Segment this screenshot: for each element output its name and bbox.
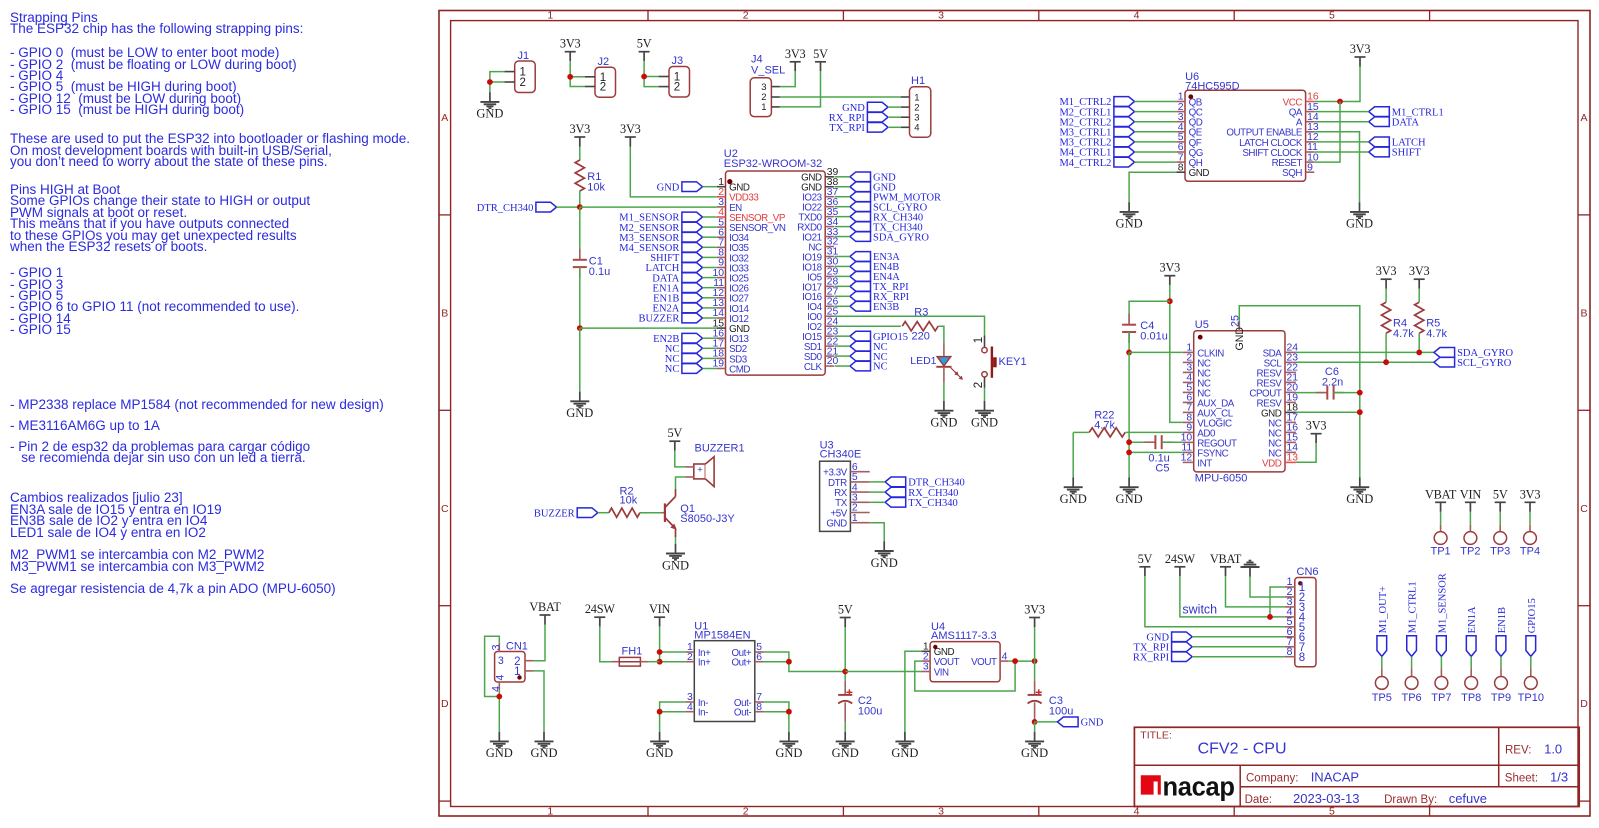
- svg-text:GND: GND: [486, 746, 513, 760]
- U2 pin 38 GND: [801, 177, 838, 194]
- wire R22 to ground: [1072, 432, 1074, 477]
- test point TP3: [1490, 512, 1510, 558]
- svg-text:24SW: 24SW: [1165, 552, 1196, 566]
- svg-text:C: C: [441, 503, 449, 515]
- U2 pin 11 IO26: [713, 278, 749, 295]
- U3 pin 3 TX: [835, 493, 870, 510]
- svg-text:4: 4: [1002, 651, 1008, 662]
- svg-text:TP7: TP7: [1431, 692, 1451, 704]
- wire OUTPUT ENABLE to GND: [1314, 132, 1359, 202]
- junction R5/SDA: [1416, 350, 1422, 356]
- U2 pin 36 IO22: [802, 197, 838, 214]
- wires U6 right labels: [1314, 111, 1368, 113]
- note strapping pins heading: [10, 12, 303, 35]
- junction VIN 2: [657, 659, 663, 665]
- junction VIN 1: [657, 649, 663, 655]
- U2 pin 9 IO33: [717, 258, 750, 275]
- wire 3V3 down to VLOGIC: [1170, 285, 1183, 422]
- svg-text:8: 8: [756, 702, 762, 713]
- U2 pin 24 IO2: [807, 316, 838, 333]
- power 3V3 (J4): [785, 47, 806, 72]
- wire: [1135, 141, 1177, 143]
- svg-text:Date:: Date:: [1245, 794, 1273, 806]
- svg-text:TP5: TP5: [1372, 692, 1392, 704]
- svg-text:GND: GND: [832, 746, 859, 760]
- wire: [835, 305, 850, 307]
- sheet frame: [439, 11, 1590, 817]
- wire: [835, 365, 850, 367]
- svg-text:GND: GND: [891, 746, 918, 760]
- label LATCH (U2 pin 9): [646, 263, 703, 275]
- svg-text:1: 1: [761, 102, 766, 113]
- U2 pin 33 IO21: [802, 227, 838, 244]
- svg-text:B: B: [1580, 307, 1587, 319]
- wire: [703, 267, 717, 269]
- wire U4 VOUT4: [1009, 660, 1035, 662]
- junction In-: [657, 709, 663, 715]
- wire U6.8 GND: [1129, 172, 1176, 202]
- U2 pin 12 IO27: [712, 288, 748, 305]
- title block: [1134, 727, 1579, 806]
- svg-text:2: 2: [743, 805, 749, 817]
- label GND (C3): [1058, 717, 1104, 729]
- svg-text:GND: GND: [1346, 492, 1373, 506]
- U6 pin 11 SHIFT CLOCK: [1242, 142, 1318, 159]
- svg-text:INACAP: INACAP: [1311, 769, 1359, 784]
- capacitor C3 100u: [1028, 681, 1074, 722]
- ground KEY1: [971, 401, 998, 430]
- svg-text:4.7k: 4.7k: [1426, 328, 1447, 340]
- note gpio list: [10, 47, 297, 116]
- svg-text:8: 8: [1178, 162, 1184, 173]
- test point TP7: [1431, 656, 1451, 704]
- U5 pin 11 FSYNC: [1181, 443, 1228, 460]
- ground U1 right: [775, 732, 802, 761]
- U5 pin 20 CPOUT: [1249, 383, 1298, 400]
- svg-text:4: 4: [494, 675, 506, 681]
- U4 pin 1 GND: [921, 642, 954, 659]
- label EN1B (TP9): [1496, 607, 1508, 656]
- wire: [835, 335, 850, 337]
- U6 pin 2 QC: [1176, 102, 1202, 119]
- U5 pin 1 CLKIN: [1183, 343, 1224, 360]
- svg-text:KEY1: KEY1: [999, 356, 1027, 368]
- U2 pin 35 TXD0: [798, 207, 838, 224]
- U1 pin 8 Out-: [734, 702, 764, 719]
- svg-text:V_SEL: V_SEL: [751, 64, 785, 76]
- svg-text:2023-03-13: 2023-03-13: [1293, 791, 1360, 806]
- svg-text:In+: In+: [698, 658, 711, 669]
- label GPIO15 (U2 pin 23): [850, 331, 908, 343]
- ground U5 right rail: [1346, 478, 1373, 507]
- svg-text:12: 12: [1181, 453, 1193, 464]
- U3 pin 6 +3.3V: [823, 462, 870, 479]
- svg-text:3V3: 3V3: [570, 122, 591, 136]
- wire 3V3 rail down: [1034, 627, 1036, 681]
- ground U4: [891, 732, 918, 761]
- label RX_RPI (CN6.8): [1133, 652, 1192, 664]
- power 3V3 (U5 VDD): [1306, 419, 1327, 444]
- U3 pin 4 RX: [834, 482, 870, 499]
- wire: [703, 307, 717, 309]
- connector J3: [659, 55, 690, 97]
- label SCL_GYRO: [1434, 357, 1512, 369]
- U5 pin 8 VLOGIC: [1183, 413, 1232, 430]
- svg-text:D: D: [1580, 698, 1588, 710]
- svg-text:DATA: DATA: [1392, 117, 1420, 128]
- label GND (H1.2): [842, 102, 888, 114]
- U2 pin 34 RXD0: [797, 217, 838, 234]
- U4 pin 4 VOUT: [971, 651, 1009, 668]
- U5 pin 9 AD0: [1183, 423, 1216, 440]
- svg-text:GND: GND: [530, 746, 557, 760]
- wire J4.3 to 3V3: [780, 71, 795, 86]
- svg-text:cefuve: cefuve: [1449, 791, 1487, 806]
- IC U6 74HC595D: [1185, 71, 1306, 181]
- junction: [567, 74, 573, 80]
- svg-text:1: 1: [852, 513, 858, 524]
- test point TP8: [1461, 656, 1481, 704]
- wire U3 GND: [870, 523, 885, 542]
- U6 pin 3 QD: [1176, 112, 1202, 129]
- wire: [703, 287, 717, 289]
- label M3_CTRL1: [1059, 127, 1134, 139]
- svg-text:VBAT: VBAT: [529, 600, 561, 614]
- label EN1A (U2 pin 11): [653, 283, 703, 295]
- test point TP9: [1491, 656, 1511, 704]
- resistor R2 10k: [609, 486, 640, 518]
- wire J1 to GND: [490, 72, 505, 93]
- U2 pin 31 IO19: [802, 247, 838, 264]
- wire J4.2 to H1.1: [780, 96, 901, 98]
- svg-text:J3: J3: [672, 55, 684, 67]
- svg-text:TP2: TP2: [1460, 546, 1480, 558]
- U2 pin 18 SD3: [712, 349, 747, 366]
- svg-text:EN1A: EN1A: [1467, 606, 1478, 633]
- wire: [835, 295, 850, 297]
- label EN4B (U2 pin 30): [850, 262, 899, 274]
- svg-text:Drawn By:: Drawn By:: [1384, 794, 1437, 806]
- label DATA: [1369, 117, 1420, 129]
- svg-text:3V3: 3V3: [785, 47, 806, 61]
- wire IO2 to R3: [834, 325, 901, 327]
- label NC (U2 pin 17): [665, 343, 703, 355]
- note pwm swap: [10, 549, 264, 572]
- label SDA_GYRO (U2 pin 33): [850, 232, 930, 244]
- connector CN6: [1285, 566, 1319, 667]
- U2 pin 39 GND: [801, 167, 838, 184]
- svg-text:J2: J2: [598, 56, 610, 68]
- U6 pin 7 QH: [1176, 152, 1202, 169]
- svg-text:1: 1: [547, 10, 553, 22]
- earth symbol (CN6): [1241, 561, 1260, 577]
- wire FH1 to junction: [648, 661, 660, 663]
- label PWM_MOTOR (U2 pin 37): [850, 192, 941, 204]
- U2 pin 21 SD0: [804, 346, 839, 363]
- wire CN1.1 to ground: [534, 671, 544, 732]
- U5 pin 4 NC: [1183, 373, 1211, 390]
- svg-text:4: 4: [490, 686, 502, 692]
- wire junction to U2 EN pin3: [580, 206, 717, 208]
- wire SDA to label: [1296, 351, 1434, 353]
- test point TP2: [1460, 512, 1480, 558]
- wire: [835, 355, 850, 357]
- wire 5V rail to U4 VIN: [845, 671, 921, 673]
- svg-text:GPIO15: GPIO15: [1527, 598, 1538, 633]
- svg-text:2: 2: [687, 652, 693, 663]
- resistor R22 4.7k: [1073, 409, 1183, 437]
- label SHIFT (U2 pin 8): [650, 253, 702, 265]
- U2 pin 13 IO14: [712, 298, 749, 315]
- wire: [703, 246, 717, 248]
- junction R1/DTR: [577, 204, 583, 210]
- junction VOUT a: [1012, 658, 1018, 664]
- wire: [703, 226, 717, 228]
- junction: [487, 79, 493, 85]
- junction C1/GND wire: [577, 325, 583, 331]
- power 3V3 (R5): [1409, 264, 1430, 289]
- connector J1: [504, 50, 535, 93]
- wire junction to U2 GND pin15: [580, 327, 717, 329]
- svg-text:TP3: TP3: [1490, 546, 1510, 558]
- U2 pin 8 IO32: [717, 248, 749, 265]
- label NC (U2 pin 21): [850, 351, 888, 363]
- label NC (U2 pin 22): [850, 341, 888, 353]
- svg-text:8: 8: [1286, 646, 1292, 658]
- note bootloader: [10, 133, 410, 167]
- test point TP5: [1372, 656, 1392, 704]
- wire: [703, 256, 717, 258]
- U5 pin 12 INT: [1181, 453, 1213, 470]
- U6 pin 9 SQH: [1282, 162, 1314, 179]
- wire earth to CN6.2: [1250, 577, 1285, 597]
- U2 pin 5 SENSOR_VN: [717, 217, 786, 234]
- wire: [703, 236, 717, 238]
- svg-text:4.7k: 4.7k: [1094, 420, 1115, 432]
- wire VCC to 3V3: [1314, 67, 1360, 102]
- wire Q1 emitter to ground: [675, 537, 677, 544]
- wire: [835, 265, 850, 267]
- connector H1: [901, 75, 931, 137]
- svg-text:3V3: 3V3: [1350, 42, 1371, 56]
- junction CN1: [496, 694, 502, 700]
- speaker BUZZER1: [685, 443, 744, 487]
- U1 pin 6 Out+: [731, 652, 763, 669]
- power 3V3 (TP4): [1520, 487, 1541, 512]
- wire 5V rail down: [844, 627, 846, 681]
- ground U6 left: [1116, 202, 1143, 231]
- wire C4 junction down to ground: [1128, 352, 1130, 477]
- U2 pin 15 GND: [712, 318, 749, 335]
- wires CN6 labels: [1192, 636, 1285, 638]
- U2 pin 23 IO15: [802, 326, 838, 343]
- power 5V (CN6): [1138, 552, 1153, 577]
- svg-text:2: 2: [600, 82, 606, 94]
- U5 pin 3 NC: [1183, 363, 1211, 380]
- wire: [835, 226, 850, 228]
- capacitor C5 0.1u: [1129, 435, 1183, 475]
- svg-text:VIN: VIN: [934, 667, 949, 678]
- junction FSYNC: [1126, 450, 1132, 456]
- label TX_RPI (U2 pin 28): [850, 282, 909, 294]
- power 5V (J3): [637, 37, 652, 62]
- label EN3A (U2 pin 31): [850, 252, 900, 264]
- IC U2 ESP32-WROOM-32: [724, 148, 825, 375]
- connector J2: [585, 56, 616, 97]
- ground R22: [1060, 478, 1087, 507]
- note pin2 esp32: [10, 441, 310, 464]
- svg-text:VDD: VDD: [1262, 458, 1282, 469]
- wire: [835, 176, 850, 178]
- svg-text:M4_CTRL2: M4_CTRL2: [1059, 158, 1111, 169]
- ground C2: [832, 732, 859, 761]
- svg-text:BUZZER: BUZZER: [639, 314, 680, 325]
- wire CN1.3 loop: [485, 636, 500, 696]
- wire VCC junction to RESET pin10: [1314, 102, 1340, 163]
- label RX_RPI (U2 pin 27): [850, 291, 910, 303]
- label EN2A (U2 pin 13): [653, 303, 703, 315]
- wire U5.25 to GND rail: [1239, 306, 1360, 478]
- svg-text:3: 3: [938, 805, 944, 817]
- svg-text:VIN: VIN: [649, 602, 671, 616]
- svg-text:4: 4: [687, 702, 693, 713]
- U4 pin1 marker: [933, 645, 937, 649]
- power 24SW (CN6): [1165, 552, 1196, 577]
- U2 pin 14 IO12: [712, 308, 748, 325]
- svg-text:100u: 100u: [1049, 705, 1073, 717]
- svg-text:C: C: [1580, 503, 1588, 515]
- U2 pin1 marker: [727, 179, 732, 184]
- junction C4/CLKIN: [1126, 350, 1132, 356]
- svg-text:5V: 5V: [1138, 552, 1153, 566]
- label M4_CTRL2: [1059, 157, 1134, 169]
- svg-text:VIN: VIN: [1460, 487, 1482, 501]
- connector J4 V_SEL: [750, 54, 785, 117]
- label TX_CH340: [885, 497, 958, 509]
- svg-text:M1_OUT+: M1_OUT+: [1378, 586, 1389, 633]
- wire: [835, 255, 850, 257]
- ground LED1: [930, 401, 957, 430]
- wire VBAT to CN1.2: [534, 625, 545, 661]
- wire: [703, 368, 717, 370]
- label EN2B (U2 pin 16): [653, 333, 702, 345]
- power VBAT (CN6): [1210, 552, 1242, 577]
- wire 5V to CN6.5: [1145, 576, 1285, 627]
- svg-text:Sheet:: Sheet:: [1505, 772, 1538, 784]
- U1 pin 3 In-: [686, 692, 709, 709]
- U6 pin 6 QG: [1176, 142, 1203, 159]
- resistor R4 4.7k: [1382, 289, 1415, 363]
- svg-text:VOUT: VOUT: [934, 657, 960, 668]
- U4 pin 3 VIN: [921, 662, 949, 679]
- ground CN1 left: [486, 732, 513, 761]
- capacitor C1 0.1u: [573, 207, 610, 328]
- U2 pin 26 IO4: [807, 296, 838, 313]
- wire: [835, 345, 850, 347]
- U5 pin 6 AUX_DA: [1183, 393, 1235, 410]
- junction VCC: [1337, 99, 1343, 105]
- svg-text:100u: 100u: [858, 705, 882, 717]
- svg-text:3: 3: [498, 655, 504, 667]
- ground U6 right: [1346, 202, 1373, 231]
- wire CN6.1 loop: [1270, 587, 1285, 617]
- svg-text:C5: C5: [1155, 463, 1169, 475]
- svg-text:TP8: TP8: [1461, 692, 1481, 704]
- wire IO0 to KEY1: [834, 316, 985, 335]
- label EN1B (U2 pin 12): [653, 293, 702, 305]
- svg-text:GND: GND: [871, 556, 898, 570]
- svg-text:2: 2: [520, 77, 526, 89]
- label RX_CH340: [885, 487, 958, 499]
- wire: [703, 357, 717, 359]
- ground U3: [871, 541, 898, 570]
- wire BUZZER to R2: [598, 512, 609, 514]
- wire LED1 to ground: [943, 383, 945, 401]
- junction C2/5V: [842, 669, 848, 675]
- svg-text:3V3: 3V3: [620, 122, 641, 136]
- svg-text:CLK: CLK: [804, 362, 823, 373]
- svg-text:4: 4: [914, 123, 919, 134]
- wire VDD to 3V3: [1296, 443, 1316, 462]
- wire CN1.4 down: [498, 691, 500, 732]
- IC U3 CH340E: [820, 439, 862, 531]
- label GPIO15 (TP10): [1526, 598, 1538, 656]
- svg-text:TITLE:: TITLE:: [1140, 729, 1172, 741]
- label TX_RPI (H1.4): [829, 122, 888, 134]
- label M3_CTRL2: [1059, 137, 1134, 149]
- svg-text:REV:: REV:: [1505, 744, 1531, 756]
- U5 pin 17 NC: [1268, 413, 1298, 430]
- svg-text:GND: GND: [1060, 492, 1087, 506]
- svg-text:GND: GND: [1346, 217, 1373, 231]
- U3 pin 2 +5V: [830, 503, 869, 520]
- U2 pin 7 IO35: [717, 238, 750, 255]
- wire: [703, 297, 717, 299]
- power 3V3 (J2): [560, 37, 581, 62]
- svg-text:In-: In-: [698, 708, 708, 719]
- label M1_SENSOR (U2 pin 4): [619, 212, 702, 224]
- svg-text:D: D: [441, 698, 449, 710]
- ground C3: [1021, 732, 1048, 761]
- power 24SW (FH1): [585, 602, 616, 627]
- wire: [835, 236, 850, 238]
- wire: [835, 275, 850, 277]
- resistor R3 220: [902, 306, 938, 342]
- svg-text:GND: GND: [646, 746, 673, 760]
- svg-text:M1_CTRL1: M1_CTRL1: [1408, 581, 1419, 633]
- U2 pin 32 NC: [808, 237, 838, 254]
- label EN3B (U2 pin 26): [850, 301, 899, 313]
- U2 pin 37 IO23: [802, 187, 838, 204]
- svg-text:H1: H1: [911, 75, 925, 87]
- svg-text:5V: 5V: [838, 603, 853, 617]
- wires U3 labels: [870, 481, 885, 483]
- svg-text:TP1: TP1: [1431, 546, 1451, 558]
- label SDA_GYRO: [1434, 348, 1514, 360]
- wire 5V to BUZZER1 pin1: [675, 451, 685, 467]
- U5 pin 2 NC: [1183, 353, 1211, 370]
- svg-text:TP4: TP4: [1520, 546, 1540, 558]
- label M3_SENSOR (U2 pin 6): [619, 232, 702, 244]
- test point TP6: [1402, 656, 1422, 704]
- wire SCL to label: [1296, 361, 1434, 363]
- IC U4 AMS1117-3.3: [930, 621, 1000, 682]
- svg-text:TP10: TP10: [1518, 692, 1544, 704]
- svg-text:2: 2: [973, 382, 985, 388]
- power 3V3 (U2 VDD33): [620, 122, 641, 147]
- note resistencia: [10, 583, 336, 594]
- wire: [835, 285, 850, 287]
